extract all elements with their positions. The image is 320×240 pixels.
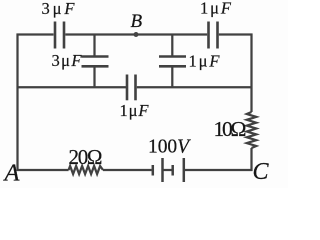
wire: battery to C (184, 169, 253, 171)
svg-text:1μF: 1μF (120, 101, 150, 120)
svg-text:1μF: 1μF (189, 52, 221, 71)
resistor 20 ohm zigzag (69, 166, 103, 174)
capacitor 1uF top-right plates (209, 22, 218, 49)
wire: top right segment (219, 33, 253, 35)
svg-text:10Ω: 10Ω (214, 117, 247, 141)
svg-text:3μF: 3μF (52, 51, 83, 70)
svg-text:100V: 100V (148, 137, 191, 158)
wire: right vertical upper (250, 34, 252, 113)
node B dot (134, 32, 139, 37)
svg-text:3μF: 3μF (42, 0, 76, 18)
wire: middle horizontal right (137, 86, 253, 88)
svg-text:B: B (131, 11, 143, 32)
wire: middle horizontal left (17, 86, 127, 88)
wire: right branch vertical stub lower (171, 67, 173, 87)
wire: top left segment (17, 33, 54, 35)
wire: right branch vertical stub upper (171, 35, 173, 56)
wire: bottom to battery (103, 169, 152, 171)
wire: top middle segment (65, 33, 207, 35)
wire: left vertical A-side (16, 34, 18, 172)
wire: left branch vertical stub lower (93, 67, 95, 87)
battery 100V plates (153, 158, 184, 182)
wire: right vertical lower (250, 148, 252, 171)
svg-text:20Ω: 20Ω (69, 145, 103, 169)
svg-text:A: A (3, 160, 21, 187)
resistor 10 ohm zigzag (247, 112, 256, 148)
svg-text:1μF: 1μF (200, 0, 232, 18)
wire: left branch vertical stub upper (93, 35, 95, 56)
wire: battery internal stub (163, 169, 173, 171)
capacitor 1uF vertical plates (159, 57, 186, 67)
svg-text:C: C (253, 159, 270, 185)
capacitor 3uF vertical plates (82, 57, 109, 67)
capacitor 3uF top plates (55, 22, 64, 49)
capacitor 1uF middle plates (127, 75, 136, 101)
wire: bottom left segment (17, 169, 69, 171)
